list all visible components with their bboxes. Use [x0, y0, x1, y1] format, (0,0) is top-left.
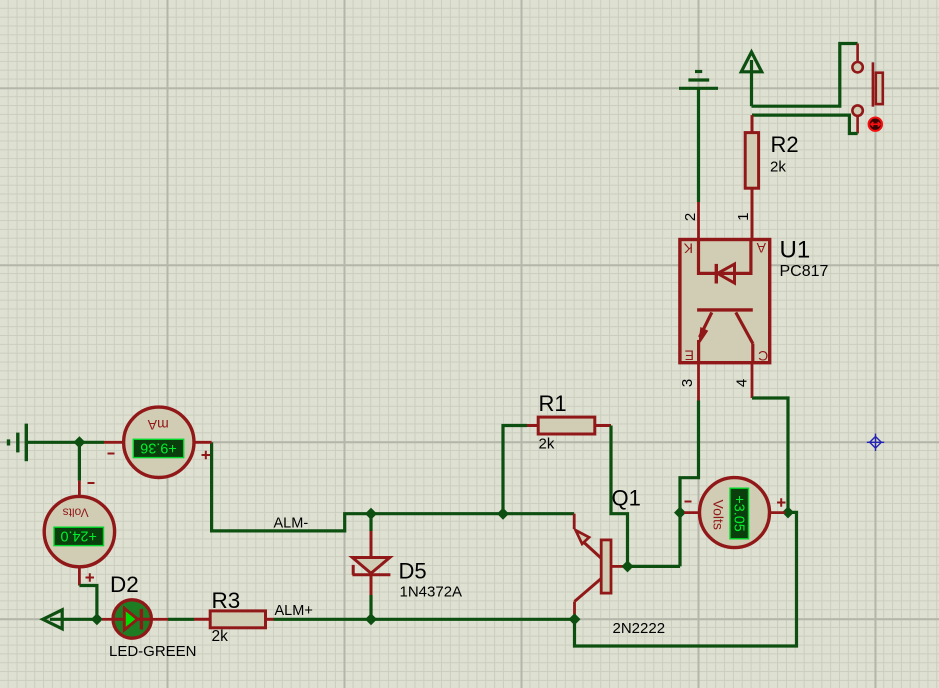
svg-text:2N2222: 2N2222 — [613, 620, 666, 637]
svg-text:1: 1 — [735, 213, 752, 221]
wire ALM- net (ammeter + to Q1 emitter / D5 / R1) — [212, 442, 575, 531]
U1 internal pin letters K A E C — [683, 240, 768, 364]
zener diode D5 1N4372A — [352, 531, 390, 595]
wire ground to ammeter - — [26, 441, 104, 444]
svg-text:K: K — [683, 241, 693, 257]
wire R1 left to ALM- net — [503, 426, 527, 514]
svg-text:+9.36: +9.36 — [140, 440, 176, 456]
svg-text:Volts: Volts — [710, 500, 726, 530]
svg-text:D2: D2 — [110, 572, 139, 597]
svg-text:2k: 2k — [770, 159, 786, 176]
svg-text:LED-GREEN: LED-GREEN — [109, 643, 197, 660]
resistor R2 — [745, 115, 758, 240]
svg-text:R3: R3 — [212, 588, 241, 613]
LED D2 LED-GREEN — [102, 600, 168, 638]
U1 pin 2 — [697, 202, 700, 240]
svg-text:Volts: Volts — [63, 506, 89, 520]
wire ground to U1 pin 2 — [697, 88, 700, 202]
U1 pin 3 — [697, 363, 700, 401]
U1 pin 4 — [751, 363, 754, 398]
wire power arrow to button top terminal — [752, 44, 858, 107]
junction (D5 bottom / ALM+) — [365, 613, 377, 625]
resistor R1 — [527, 417, 611, 434]
wire R1 right down to Q1 base junction — [611, 426, 628, 567]
svg-text:R1: R1 — [539, 391, 567, 416]
junction (D5 top / ALM-) — [365, 508, 377, 520]
svg-text:PC817: PC817 — [780, 263, 829, 280]
svg-text:Q1: Q1 — [612, 486, 641, 511]
junction (R1 left / ALM-) — [497, 508, 509, 520]
svg-text:+3.05: +3.05 — [731, 495, 747, 531]
wire D2 to R3 — [168, 618, 194, 621]
wire D5 top green stub — [369, 514, 372, 531]
power terminal (left arrow) — [43, 610, 97, 629]
transistor Q1 2N2222 — [574, 514, 623, 616]
svg-text:E: E — [685, 348, 694, 364]
wire voltmeter +24.0 bottom to ALM+ junction — [79, 586, 97, 620]
svg-text:U1: U1 — [780, 237, 811, 264]
junction (ground / ammeter / voltmeter) — [73, 436, 85, 448]
junction (Q1 collector / ALM+) — [569, 613, 581, 625]
svg-text:2: 2 — [682, 213, 699, 221]
push button (top-right) — [852, 44, 882, 134]
ground (left, rotated) — [9, 424, 27, 462]
svg-text:C: C — [758, 348, 768, 364]
button interactive marker (red circle with arrow) — [869, 118, 882, 131]
svg-text:R2: R2 — [771, 132, 799, 157]
svg-text:1N4372A: 1N4372A — [400, 584, 463, 601]
resistor R3 — [194, 611, 274, 628]
wire button bottom terminal to R2 — [752, 115, 858, 133]
svg-text:A: A — [756, 240, 766, 256]
ground (top, at U1 pin 2 net) — [679, 72, 718, 89]
wire U1 pin4 to voltmeter + node — [752, 398, 788, 512]
svg-text:2k: 2k — [212, 628, 229, 645]
junction (Q1 base) — [622, 560, 634, 572]
origin marker (blue crosshair) — [867, 434, 884, 451]
power terminal (up arrow) — [741, 52, 761, 106]
svg-text:3: 3 — [679, 379, 696, 387]
junction (voltmeter + node) — [782, 506, 794, 518]
svg-text:D5: D5 — [399, 559, 427, 584]
voltmeter (+3.05) — [684, 478, 786, 548]
wire U1 pin3 down-left to Q1 base net — [680, 401, 699, 567]
ammeter (+9.36 mA) — [104, 407, 212, 477]
wire ALM+ net — [274, 618, 575, 621]
wire Q1 base junction to U1 pin3 net — [628, 565, 681, 568]
wire voltmeter + node down and around to Q1 collector net — [575, 512, 797, 646]
wire D5 bottom green stub — [369, 595, 372, 619]
svg-text:mA: mA — [147, 417, 169, 433]
svg-text:+24.0: +24.0 — [60, 528, 96, 544]
svg-text:2k: 2k — [539, 436, 555, 453]
wire junction down to voltmeter +24.0 — [78, 442, 81, 480]
optocoupler U1 PC817 — [680, 240, 770, 363]
junction (voltmeter - node) — [674, 507, 686, 519]
svg-text:ALM-: ALM- — [274, 516, 309, 532]
svg-text:ALM+: ALM+ — [275, 603, 313, 619]
junction (arrow / D2 / voltmeter +) — [91, 613, 103, 625]
svg-text:4: 4 — [734, 379, 751, 387]
voltmeter (+24.0) — [44, 481, 114, 586]
